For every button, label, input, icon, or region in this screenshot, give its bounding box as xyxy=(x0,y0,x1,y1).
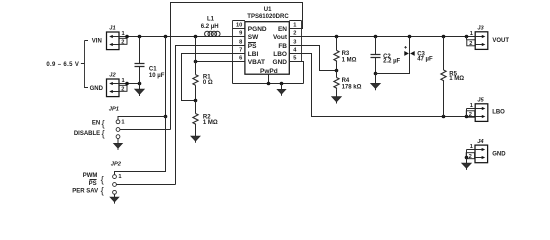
svg-text:47 µF: 47 µF xyxy=(417,56,433,62)
svg-text:VBAT: VBAT xyxy=(248,59,265,66)
connector J1 xyxy=(107,32,128,50)
svg-text:GND: GND xyxy=(90,86,104,92)
wire JP2 pin2 PS xyxy=(116,184,175,186)
ground under J4 xyxy=(462,158,471,170)
svg-text:0 Ω: 0 Ω xyxy=(203,80,213,86)
resistor R4 xyxy=(334,71,362,97)
svg-text:C1: C1 xyxy=(149,67,157,73)
node C1 top xyxy=(138,35,142,39)
svg-text:PS: PS xyxy=(248,43,257,50)
jumper JP2 xyxy=(111,161,122,194)
connector J3 xyxy=(467,26,510,50)
svg-text:GND: GND xyxy=(273,59,288,66)
node VIN drop xyxy=(164,35,168,39)
resistor R2 xyxy=(193,101,218,137)
svg-text:1 MΩ: 1 MΩ xyxy=(449,76,464,82)
svg-text:JP1: JP1 xyxy=(109,107,119,113)
inductor L1 xyxy=(201,17,220,37)
svg-text:2.2 µF: 2.2 µF xyxy=(383,59,400,65)
node C2 C3 junction xyxy=(374,72,378,76)
ground under C2 xyxy=(371,74,380,91)
node VBAT junction xyxy=(194,60,198,64)
svg-text:{: { xyxy=(102,129,105,140)
capacitor C2 xyxy=(371,37,401,74)
ground under U1 xyxy=(278,84,286,96)
node C3 top xyxy=(408,35,412,39)
svg-text:LBO: LBO xyxy=(273,51,287,58)
wire EN net JP1 pin2 up and over to U1 pin1 xyxy=(171,3,303,130)
svg-text:4: 4 xyxy=(293,48,297,54)
voltage bracket 0.9-6.5V xyxy=(46,39,103,92)
node C1 bottom xyxy=(138,82,142,86)
svg-text:L1: L1 xyxy=(207,17,215,23)
svg-text:EN: EN xyxy=(278,26,287,33)
svg-text:2: 2 xyxy=(469,41,472,47)
connector J5 xyxy=(466,98,505,122)
node J4 ground xyxy=(465,156,469,160)
wire PwPd to ground bus xyxy=(268,74,270,83)
svg-text:1 MΩ: 1 MΩ xyxy=(203,120,218,126)
wire VIN rail xyxy=(119,36,233,38)
svg-text:PwPd: PwPd xyxy=(260,68,278,75)
wire LBO long xyxy=(302,54,476,117)
svg-text:6.2 µH: 6.2 µH xyxy=(201,24,219,30)
wire VOUT rail xyxy=(302,36,476,38)
wire JP1 pin1 xyxy=(118,117,166,120)
svg-text:2: 2 xyxy=(121,39,124,45)
node bus ground stub xyxy=(280,82,284,86)
jumper JP1 xyxy=(109,107,125,139)
ground under C1 xyxy=(135,84,144,97)
node C2 top xyxy=(374,35,378,39)
node R1 top xyxy=(194,35,198,39)
node J3 jog xyxy=(465,35,469,39)
JP1 option labels xyxy=(74,118,105,139)
svg-text:VIN: VIN xyxy=(92,39,102,45)
svg-text:8: 8 xyxy=(239,39,242,45)
svg-text:J5: J5 xyxy=(477,98,484,104)
svg-text:VOUT: VOUT xyxy=(492,38,509,44)
U1 left pin ladder xyxy=(233,21,245,62)
node J1 jog xyxy=(125,35,129,39)
node FB junction xyxy=(335,69,339,73)
svg-text:FB: FB xyxy=(278,43,287,50)
wire JP1 pin2 EN xyxy=(120,129,171,131)
connector J2 xyxy=(107,79,128,97)
wire J1 pin2 jog xyxy=(126,37,128,39)
svg-text:10: 10 xyxy=(236,23,242,29)
capacitor C3 polarized xyxy=(376,37,433,74)
node R3 top xyxy=(335,35,339,39)
svg-text:1: 1 xyxy=(293,23,296,29)
svg-text:J4: J4 xyxy=(477,139,484,145)
svg-text:PER SAV: PER SAV xyxy=(72,188,98,194)
svg-text:J2: J2 xyxy=(109,73,116,79)
op IC U1 body xyxy=(245,7,289,74)
capacitor C1 xyxy=(135,37,165,84)
svg-text:1: 1 xyxy=(470,31,473,37)
U1 pin names xyxy=(248,26,288,75)
svg-text:LBI: LBI xyxy=(248,51,259,58)
svg-text:LBO: LBO xyxy=(492,109,505,115)
svg-text:J1: J1 xyxy=(109,26,115,32)
resistor R1 xyxy=(193,37,213,101)
ground under JP2 xyxy=(110,194,118,203)
svg-text:10 µF: 10 µF xyxy=(149,73,165,79)
connector J4 xyxy=(466,139,506,163)
svg-text:PS: PS xyxy=(89,181,97,187)
svg-text:6: 6 xyxy=(239,56,242,62)
svg-text:Vout: Vout xyxy=(273,34,288,41)
svg-text:2: 2 xyxy=(469,112,472,118)
JP2 option labels xyxy=(72,173,104,197)
ground under R2 xyxy=(191,136,200,143)
resistor R5 xyxy=(441,37,464,117)
ground under JP1 xyxy=(114,139,122,150)
PS overline xyxy=(248,42,256,44)
svg-text:PGND: PGND xyxy=(248,26,267,33)
svg-text:J3: J3 xyxy=(477,26,484,32)
wire GND pin5 to ground bus xyxy=(302,62,304,84)
wire FB loop xyxy=(302,46,337,71)
svg-text:1 MΩ: 1 MΩ xyxy=(342,57,357,63)
node R5 bottom LBO xyxy=(442,115,446,119)
svg-text:1: 1 xyxy=(470,103,473,109)
node J5 jog xyxy=(465,115,469,119)
svg-text:1: 1 xyxy=(121,119,124,125)
svg-text:EN: EN xyxy=(92,121,100,127)
node R5 top xyxy=(442,35,446,39)
svg-text:{: { xyxy=(101,174,104,185)
svg-text:5: 5 xyxy=(293,56,296,62)
resistor R3 xyxy=(334,37,357,71)
svg-text:2: 2 xyxy=(293,31,296,37)
svg-text:U1: U1 xyxy=(264,7,272,13)
wire PGND down left ladder edge xyxy=(232,62,234,84)
svg-text:DISABLE: DISABLE xyxy=(74,131,100,137)
wire VBAT to VIN xyxy=(196,61,233,63)
wire ground bus xyxy=(233,83,304,85)
svg-text:SW: SW xyxy=(248,34,259,41)
wire VIN vertical to jumpers xyxy=(165,37,167,117)
wire J2 pin2 jog xyxy=(126,84,128,86)
wire J2 pin1 to ground node xyxy=(119,83,140,85)
node JP1 pin1 junction xyxy=(164,115,168,119)
svg-text:1: 1 xyxy=(470,144,473,150)
svg-text:2: 2 xyxy=(121,86,124,92)
svg-text:2: 2 xyxy=(469,154,472,160)
svg-text:7: 7 xyxy=(239,48,242,54)
svg-text:JP2: JP2 xyxy=(111,161,122,167)
wire PS net JP2 pin2 up to U1 pin8 xyxy=(176,46,233,185)
node PwPd bus xyxy=(267,82,271,86)
svg-text:R4: R4 xyxy=(342,78,350,84)
svg-text:178 kΩ: 178 kΩ xyxy=(342,84,362,90)
svg-text:TPS61020DRC: TPS61020DRC xyxy=(247,14,289,20)
ground under R4 xyxy=(332,97,341,104)
svg-text:PWM: PWM xyxy=(83,173,98,179)
svg-text:{: { xyxy=(101,185,104,196)
svg-text:3: 3 xyxy=(293,39,296,45)
node J2 jog xyxy=(125,82,129,86)
wire LBI loop xyxy=(182,54,233,101)
svg-text:1: 1 xyxy=(118,174,121,180)
svg-text:0.9 – 6.5 V: 0.9 – 6.5 V xyxy=(46,62,79,68)
node R1 bottom LBI junction xyxy=(194,99,198,103)
svg-text:9: 9 xyxy=(239,31,242,37)
wire VIN vertical continue to JP2 xyxy=(115,117,166,175)
svg-text:GND: GND xyxy=(492,152,506,158)
svg-text:R3: R3 xyxy=(342,51,350,57)
U1 right pin ladder xyxy=(289,21,301,62)
